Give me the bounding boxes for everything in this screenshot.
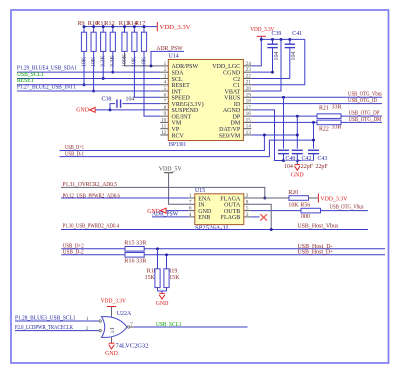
svg-text:15: 15: [246, 117, 252, 123]
no-ERC marker on FLAGB: [251, 216, 260, 218]
ground GND (decoupling caps): [296, 161, 298, 165]
svg-text:C42: C42: [302, 156, 312, 162]
svg-text:P1.27_BLUE2_USB_INT1: P1.27_BLUE2_USB_INT1: [17, 85, 76, 91]
svg-text:VDD_3.3V: VDD_3.3V: [101, 298, 127, 304]
capacitor C40: [283, 97, 285, 148]
svg-text:CGND: CGND: [223, 70, 241, 76]
wire P0.12 to ENA: [61, 197, 189, 199]
svg-text:17: 17: [246, 105, 252, 111]
wire OUTA to USB_Host_Vbus / P1.30: [61, 229, 368, 231]
wire R12 to SDA net: [112, 51, 114, 72]
wire R9 to RESET net: [83, 51, 85, 84]
wire input pin 2: [15, 330, 99, 332]
power VDD_3.3V (R20): [317, 193, 319, 202]
svg-text:SPEED: SPEED: [172, 96, 191, 102]
svg-text:USB_Host_Vbus: USB_Host_Vbus: [297, 224, 339, 230]
svg-text:R22: R22: [319, 127, 329, 133]
svg-text:RCV: RCV: [172, 133, 185, 139]
svg-text:2: 2: [164, 67, 167, 73]
svg-text:11: 11: [161, 124, 166, 130]
svg-text:22pF: 22pF: [316, 164, 329, 170]
svg-text:USB_OTG_DP: USB_OTG_DP: [349, 110, 381, 116]
svg-text:C39: C39: [272, 31, 282, 37]
svg-text:GND: GND: [105, 351, 119, 357]
svg-text:VREG(3.3V): VREG(3.3V): [172, 101, 204, 108]
svg-text:15K: 15K: [145, 275, 156, 281]
svg-text:3: 3: [164, 73, 167, 79]
svg-text:14: 14: [246, 124, 252, 130]
svg-text:C43: C43: [318, 156, 328, 162]
svg-text:ISP1301: ISP1301: [169, 142, 187, 148]
svg-text:GND: GND: [198, 209, 212, 215]
svg-text:8: 8: [246, 199, 249, 205]
svg-text:1: 1: [86, 316, 89, 322]
svg-text:104: 104: [274, 52, 280, 61]
svg-text:DP: DP: [233, 114, 241, 120]
svg-text:SE0/VM: SE0/VM: [219, 133, 241, 139]
U15 pins with names: [189, 197, 195, 199]
svg-text:R56: R56: [300, 203, 310, 209]
svg-text:R15 33R: R15 33R: [124, 240, 146, 246]
svg-text:4: 4: [164, 80, 167, 86]
svg-text:8: 8: [164, 105, 167, 111]
capacitor C42: [296, 116, 298, 148]
svg-text:C40: C40: [286, 156, 296, 162]
svg-text:16: 16: [246, 111, 252, 117]
svg-text:1: 1: [189, 193, 192, 199]
svg-text:18: 18: [246, 99, 252, 105]
wire VDD bus: [261, 38, 305, 40]
svg-text:RESET: RESET: [172, 83, 191, 89]
svg-text:3: 3: [246, 212, 249, 218]
svg-text:2: 2: [86, 326, 89, 332]
svg-text:33R: 33R: [332, 104, 342, 110]
svg-text:104: 104: [284, 164, 293, 170]
svg-text:13: 13: [246, 130, 252, 136]
wire VDD to pin 20 VBAT: [251, 39, 281, 91]
svg-text:USB_Host_D+: USB_Host_D+: [298, 250, 335, 256]
svg-text:22: 22: [246, 73, 252, 79]
wire output pin 7 USB_SCL1: [127, 326, 129, 328]
svg-text:≥1: ≥1: [110, 327, 116, 333]
svg-text:OUTA: OUTA: [224, 203, 241, 209]
ground GND (U22A): [111, 337, 113, 343]
wire VDD to pin 24 VDD_LGC: [251, 39, 261, 66]
svg-text:OE/INT: OE/INT: [172, 114, 192, 120]
svg-text:21: 21: [246, 80, 252, 86]
wire P1.31 to FLAGA: [61, 187, 265, 198]
svg-text:20: 20: [246, 86, 252, 92]
svg-text:USB_OTG_ID: USB_OTG_ID: [348, 98, 378, 104]
svg-text:VDD_3.3V: VDD_3.3V: [320, 196, 348, 202]
svg-text:33R: 33R: [332, 124, 342, 130]
svg-text:ADR/PSW: ADR/PSW: [172, 64, 199, 70]
svg-text:6: 6: [189, 206, 192, 212]
svg-text:P1.30_USB_PWRD2_AD0.4: P1.30_USB_PWRD2_AD0.4: [63, 224, 120, 230]
wire C41 to pin 22 C2: [251, 77, 289, 79]
ground GND (R18 R19): [158, 290, 167, 292]
power VDD_3.3V (resistor bank): [156, 22, 158, 31]
svg-text:6: 6: [164, 92, 167, 98]
svg-text:1: 1: [164, 61, 167, 67]
svg-text:VP: VP: [172, 127, 180, 133]
wire ID pin 18 to USB_OTG_ID: [251, 103, 382, 105]
svg-text:VDD_LGC: VDD_LGC: [212, 64, 240, 70]
svg-text:VDD_5V: VDD_5V: [159, 166, 183, 172]
wire GND to pin 8 SUSPEND: [96, 109, 161, 111]
svg-text:C41: C41: [292, 31, 302, 37]
svg-text:U22A: U22A: [117, 311, 132, 317]
svg-text:U15: U15: [195, 188, 205, 194]
svg-text:SUSPEND: SUSPEND: [172, 108, 199, 114]
svg-text:P1.29_BLUE4_USB_SDA1: P1.29_BLUE4_USB_SDA1: [17, 66, 77, 72]
wire R17 to pin 9 OE/INT: [144, 51, 160, 116]
svg-text:000: 000: [301, 214, 310, 220]
wire R14 to pin 6 SPEED: [134, 51, 160, 97]
svg-text:INT: INT: [172, 89, 182, 95]
wire C39 to pin 23 CGND: [251, 71, 272, 73]
svg-text:10: 10: [161, 117, 167, 123]
svg-text:19: 19: [246, 92, 252, 98]
wire R13 to pin 1 ADR/PSW: [125, 51, 161, 66]
svg-text:GND: GND: [76, 107, 90, 113]
svg-text:7: 7: [189, 199, 192, 205]
svg-text:VBAT: VBAT: [225, 89, 241, 95]
svg-text:VM: VM: [172, 121, 182, 127]
svg-text:74LVC2G32: 74LVC2G32: [116, 344, 149, 350]
wire input pin 1: [15, 320, 99, 322]
svg-text:2: 2: [246, 193, 249, 199]
svg-text:GND: GND: [291, 172, 305, 178]
wire USB_D+1 to pin 13 SE0/VM: [60, 135, 265, 151]
svg-text:VDD_3.3V: VDD_3.3V: [160, 25, 192, 31]
svg-text:22pF: 22pF: [301, 164, 314, 170]
svg-text:U14: U14: [169, 54, 179, 60]
svg-text:RESET: RESET: [17, 78, 34, 84]
wire AGND pin 17 to ground bus: [251, 110, 313, 161]
svg-text:USB_OTG_DM: USB_OTG_DM: [349, 117, 383, 123]
svg-text:DAT/VP: DAT/VP: [219, 127, 241, 133]
svg-text:12: 12: [161, 130, 167, 136]
svg-text:IN: IN: [198, 203, 205, 209]
junction dots on resistor bus: [83, 25, 86, 28]
wire resistor-top bus: [84, 26, 157, 28]
svg-text:5: 5: [164, 86, 167, 92]
wire R10 to INT net: [93, 51, 95, 91]
U14 right pins 24-13 with names: [243, 65, 251, 67]
svg-text:R16 33R: R16 33R: [124, 259, 146, 265]
svg-text:4: 4: [189, 212, 192, 218]
svg-text:104: 104: [291, 52, 297, 61]
svg-text:GND: GND: [156, 301, 170, 307]
svg-text:7: 7: [130, 322, 133, 328]
svg-text:DM: DM: [231, 121, 241, 127]
svg-text:ID: ID: [234, 102, 241, 108]
svg-text:9: 9: [164, 111, 167, 117]
svg-text:USB_SCL1: USB_SCL1: [17, 72, 44, 78]
svg-text:24: 24: [246, 61, 252, 67]
capacitor C43: [313, 122, 315, 148]
wire R11 to SCL net: [102, 51, 104, 78]
wire VBUS pin 19 to USB_OTG_Vbus: [251, 96, 382, 98]
svg-text:15K: 15K: [169, 275, 180, 281]
svg-text:USB_OTG_Vbus: USB_OTG_Vbus: [330, 205, 365, 211]
svg-text:SDA: SDA: [172, 70, 185, 76]
svg-text:10K: 10K: [288, 203, 299, 209]
svg-text:C38: C38: [102, 97, 112, 103]
U14 left pins 1-12 with names: [160, 65, 168, 67]
svg-text:ENB: ENB: [198, 215, 210, 221]
svg-text:SCL: SCL: [172, 77, 183, 83]
wire USB_D-1 to C43 node: [60, 140, 314, 157]
svg-text:FLAGA: FLAGA: [220, 196, 241, 202]
svg-text:USB_OTG_Vbus: USB_OTG_Vbus: [348, 92, 383, 98]
svg-text:C2: C2: [233, 77, 240, 83]
wire VDD to pin 21 C1: [251, 39, 304, 84]
svg-text:R21: R21: [319, 106, 329, 112]
svg-text:SP2526A-1L: SP2526A-1L: [195, 226, 230, 232]
svg-text:7: 7: [164, 99, 167, 105]
svg-text:5: 5: [246, 206, 249, 212]
svg-text:VBUS: VBUS: [224, 96, 240, 102]
svg-text:AGND: AGND: [223, 108, 241, 114]
svg-text:USB_SCL1: USB_SCL1: [156, 322, 182, 328]
svg-text:ENA: ENA: [198, 196, 211, 202]
svg-text:FLAGB: FLAGB: [221, 215, 241, 221]
svg-text:104: 104: [126, 97, 135, 103]
svg-text:23: 23: [246, 67, 252, 73]
svg-text:C1: C1: [233, 83, 240, 89]
svg-text:OUTB: OUTB: [224, 209, 240, 215]
